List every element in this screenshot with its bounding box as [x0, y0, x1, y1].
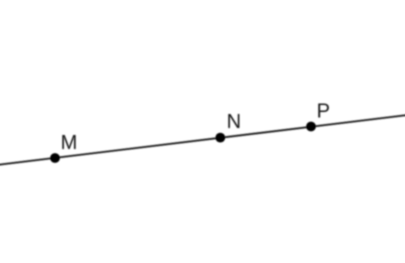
node P — [306, 122, 316, 132]
node N — [215, 133, 225, 143]
svg-text:M: M — [61, 132, 78, 154]
svg-text:P: P — [317, 100, 330, 122]
node M — [50, 153, 60, 163]
wire — [0, 115, 405, 165]
svg-text:N: N — [227, 111, 241, 133]
